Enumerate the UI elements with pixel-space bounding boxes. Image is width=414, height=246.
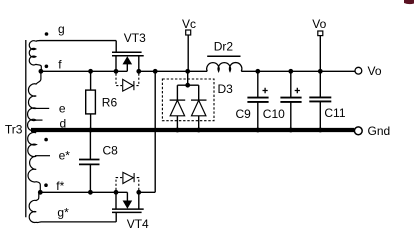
transistor VT3: [112, 31, 146, 91]
svg-text:g: g: [58, 22, 65, 36]
VT4 body diode dashed wires: [116, 178, 139, 190]
svg-text:Vc: Vc: [182, 17, 196, 31]
C10 plus sign: [295, 88, 300, 93]
svg-text:Vo: Vo: [368, 64, 382, 78]
winding f*-g*: [29, 192, 116, 222]
svg-text:e: e: [59, 102, 66, 116]
VT4 channel bar: [112, 208, 144, 210]
wire D3 inner top: [177, 84, 198, 86]
VT4 drain drop: [138, 192, 140, 209]
VT3 body diode cathode bar: [133, 81, 135, 90]
VT3 body diode dashed wires: [116, 74, 139, 86]
wire f* rail: [40, 191, 127, 193]
wire VT drain link vertical: [154, 71, 156, 192]
wire g tap: [36, 40, 116, 43]
transformer Tr3 core: [25, 40, 27, 217]
VT3 substrate arrow: [123, 56, 133, 64]
wire C8 top lead: [89, 131, 91, 160]
wire R6 bottom lead: [90, 114, 92, 128]
node e* polarity dot: [44, 138, 48, 142]
svg-text:Dr2: Dr2: [214, 40, 234, 54]
svg-text:C11: C11: [324, 106, 345, 120]
svg-text:C9: C9: [236, 107, 252, 121]
transistor VT4: [112, 172, 149, 230]
inductor Dr2: [207, 40, 242, 72]
svg-text:R6: R6: [102, 96, 118, 110]
wire VT3 gate vertical: [115, 41, 117, 53]
terminal Vo output circle: [355, 64, 382, 78]
VT4 body diode cathode bar: [133, 173, 135, 182]
resistor R6: [86, 71, 118, 128]
VT3 drain drop: [138, 56, 140, 72]
VT4 source drop: [115, 192, 117, 209]
wire D3 common drop: [187, 71, 189, 85]
svg-text:C8: C8: [103, 144, 119, 158]
wire Vc drop: [187, 35, 189, 71]
Dr2 coil: [207, 63, 242, 72]
C8 plates: [79, 160, 100, 165]
junction dots f rail: [39, 69, 323, 74]
VT4 gate bar: [112, 211, 142, 213]
svg-text:C10: C10: [263, 107, 285, 121]
terminal Vo top: [312, 17, 326, 71]
R6 body: [86, 90, 96, 114]
capacitor C8: [79, 131, 118, 192]
node f* polarity dot: [44, 183, 48, 187]
svg-text:Tr3: Tr3: [5, 122, 23, 136]
capacitor C10: [263, 71, 302, 128]
wire R6 top lead: [90, 71, 92, 90]
svg-text:f*: f*: [56, 179, 64, 193]
wire f* rail right: [139, 191, 155, 193]
VT3 source drop: [115, 56, 117, 72]
C9 plus sign: [263, 88, 268, 93]
VT3 channel bar: [112, 55, 144, 57]
VT3 gate bar: [112, 51, 142, 53]
terminal Vc: [182, 17, 196, 72]
VT4 body diode triangle: [123, 172, 133, 183]
svg-text:VT3: VT3: [124, 31, 146, 45]
svg-text:D3: D3: [218, 82, 234, 96]
diode assembly D3: [162, 71, 233, 128]
diode D3 right: [198, 85, 200, 100]
wire f rail left: [41, 70, 127, 72]
junction dots Gnd bus: [88, 128, 323, 133]
wire C8 bottom lead: [89, 164, 91, 192]
Dr2 core line: [207, 55, 240, 57]
winding d-f*: [28, 132, 41, 192]
winding f-d: [28, 71, 41, 131]
diode D3 left: [176, 85, 178, 100]
wire f rail right: [139, 70, 207, 72]
stub e tap: [36, 107, 49, 109]
wire main rail after Dr2: [241, 70, 355, 72]
VT3 substrate wire: [126, 64, 128, 71]
decorative red corner mark: [404, 0, 414, 4]
terminal Gnd circle: [354, 124, 390, 138]
svg-text:f: f: [58, 58, 62, 72]
junction dots f* rail: [38, 190, 141, 195]
D3 dashed box: [162, 79, 214, 121]
VT4 substrate wire: [126, 192, 128, 200]
node f polarity dot: [45, 65, 49, 69]
capacitor C11: [309, 71, 346, 128]
svg-text:Vo: Vo: [312, 17, 326, 31]
wire Gnd bus: [31, 128, 354, 132]
VT3 body diode triangle: [123, 79, 134, 91]
stub d tap: [36, 119, 43, 121]
svg-text:VT4: VT4: [127, 217, 149, 231]
stub e* tap: [35, 155, 50, 157]
capacitor C9: [236, 71, 269, 128]
svg-text:e*: e*: [59, 148, 71, 162]
node g polarity dot: [45, 32, 49, 36]
wire Vo drop: [319, 36, 321, 72]
winding g-f: [29, 41, 41, 72]
junction dot D3 common: [185, 83, 190, 88]
svg-text:g*: g*: [57, 205, 69, 219]
wire VT4 gate vertical: [115, 212, 117, 222]
svg-text:Gnd: Gnd: [368, 124, 391, 138]
VT4 substrate arrow: [123, 201, 133, 209]
